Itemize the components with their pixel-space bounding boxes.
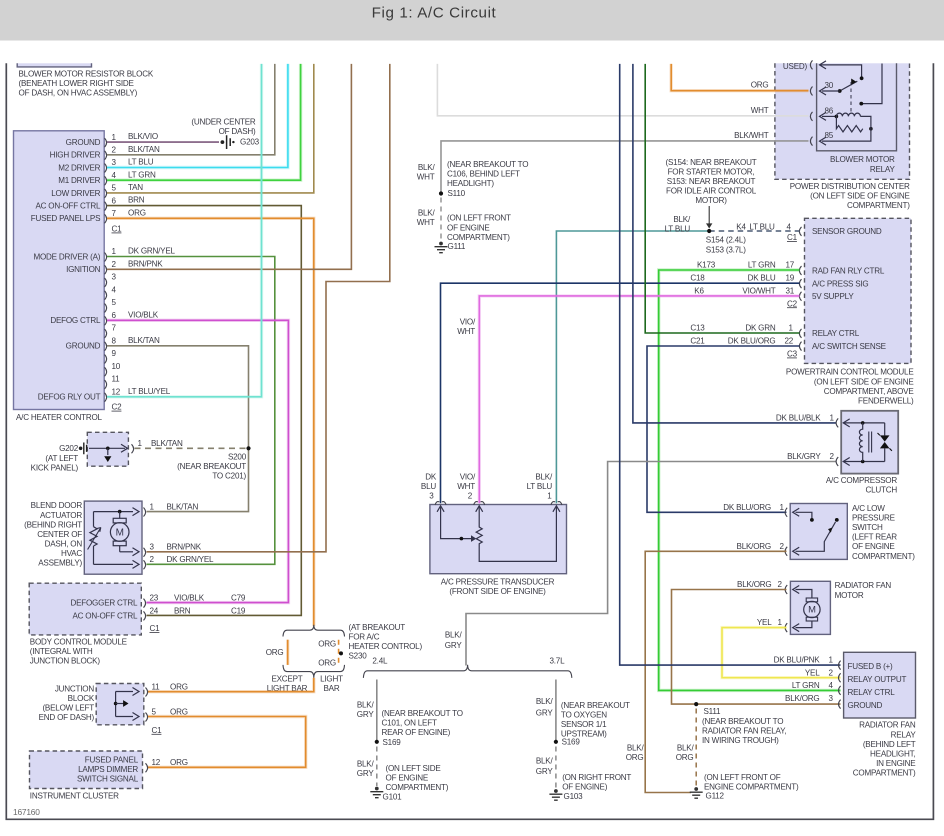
svg-text:JUNCTION BLOCK): JUNCTION BLOCK) xyxy=(30,657,101,666)
svg-text:(ON RIGHT FRONT: (ON RIGHT FRONT xyxy=(562,773,631,782)
svg-text:(ON LEFT SIDE OF ENGINE: (ON LEFT SIDE OF ENGINE xyxy=(810,191,910,200)
radiator fan relay box xyxy=(844,652,916,718)
svg-text:BLK/TAN: BLK/TAN xyxy=(167,502,199,511)
svg-text:S200: S200 xyxy=(228,452,247,461)
svg-text:LAMPS DIMMER: LAMPS DIMMER xyxy=(78,765,138,774)
svg-text:(AT LEFT: (AT LEFT xyxy=(45,454,78,463)
svg-text:C3: C3 xyxy=(787,350,798,359)
switch internal contacts xyxy=(796,512,812,518)
ground G203 xyxy=(221,140,225,144)
svg-text:(NEAR BREAKOUT: (NEAR BREAKOUT xyxy=(177,462,246,471)
blower motor resistor block (clipped box) xyxy=(17,63,91,67)
powertrain control module box xyxy=(805,218,912,363)
A/C heater control module box xyxy=(14,131,105,410)
connector arcs low pressure switch xyxy=(785,508,787,517)
svg-text:LT BLU: LT BLU xyxy=(128,158,154,167)
wire LT GRN heater pin 4 xyxy=(107,64,301,180)
svg-text:WHT: WHT xyxy=(417,218,435,227)
svg-text:VIO/: VIO/ xyxy=(460,318,476,327)
blower relay actuator dashed link xyxy=(850,82,852,113)
ground G111 xyxy=(439,242,443,246)
svg-text:G203: G203 xyxy=(240,138,260,147)
connector arcs junction block xyxy=(146,688,148,697)
wire dashed BLK/GRY S169 to G103 xyxy=(555,747,557,789)
svg-text:RADIATOR FAN: RADIATOR FAN xyxy=(835,581,892,590)
connector arc G202 pin 1 xyxy=(132,444,134,453)
svg-text:IGNITION: IGNITION xyxy=(66,265,101,274)
connector arcs clutch pins xyxy=(836,418,838,427)
svg-text:SWITCH: SWITCH xyxy=(852,523,883,532)
svg-text:GRY: GRY xyxy=(357,769,375,778)
ground G101 xyxy=(375,787,379,791)
wire ORG junction pin 5 to instrument cluster pin 12 xyxy=(148,717,306,768)
svg-text:OF ENGINE: OF ENGINE xyxy=(447,223,490,232)
svg-text:LT GRN: LT GRN xyxy=(128,170,156,179)
svg-text:4: 4 xyxy=(787,222,792,231)
svg-text:A/C PRESS SIG: A/C PRESS SIG xyxy=(812,279,869,288)
svg-text:RADIATOR FAN RELAY,: RADIATOR FAN RELAY, xyxy=(702,727,786,736)
svg-text:BRN: BRN xyxy=(128,196,145,205)
svg-text:167160: 167160 xyxy=(13,807,40,817)
A/C compressor clutch box xyxy=(841,411,898,474)
svg-text:BLK/TAN: BLK/TAN xyxy=(128,336,160,345)
svg-text:LT BLU: LT BLU xyxy=(749,222,775,231)
wire dashed K4 LT BLU S154 to PCM pin 4 xyxy=(709,230,799,232)
wire VIO/WHT K6 PCM pin 31 to transducer pin 2 xyxy=(479,296,799,503)
wire BLK/GRY 3.7L branch to S169 xyxy=(555,680,557,742)
svg-text:WHT: WHT xyxy=(457,327,475,336)
blower relay coil and resistor xyxy=(822,115,836,117)
wire DK BLU/BLK to clutch pin 1 xyxy=(633,64,837,423)
svg-text:BLK/ORG: BLK/ORG xyxy=(737,580,771,589)
svg-text:(NEAR BREAKOUT TO: (NEAR BREAKOUT TO xyxy=(702,717,783,726)
svg-text:GROUND: GROUND xyxy=(66,138,101,147)
svg-text:DK BLU/ORG: DK BLU/ORG xyxy=(723,503,771,512)
junction block internal feed xyxy=(116,692,133,717)
svg-text:M: M xyxy=(116,527,124,538)
svg-text:1: 1 xyxy=(789,324,794,333)
wire dashed BLK/ORG S111 to G112 xyxy=(695,709,697,787)
svg-text:ENGINE COMPARTMENT): ENGINE COMPARTMENT) xyxy=(704,783,799,792)
svg-text:ORG: ORG xyxy=(318,659,336,668)
svg-text:2: 2 xyxy=(112,146,117,155)
svg-text:C1: C1 xyxy=(150,624,161,633)
svg-text:C13: C13 xyxy=(690,324,705,333)
svg-text:TO C201): TO C201) xyxy=(212,472,246,481)
svg-text:BLK/GRY: BLK/GRY xyxy=(787,452,821,461)
svg-text:FUSED PANEL: FUSED PANEL xyxy=(85,756,139,765)
wire DK GRN C13 PCM pin 1 to top xyxy=(645,64,799,333)
S154 pointer arrow xyxy=(708,206,710,225)
svg-text:DEFOG CTRL: DEFOG CTRL xyxy=(50,316,101,325)
svg-text:G101: G101 xyxy=(383,792,403,801)
svg-text:7: 7 xyxy=(112,324,117,333)
wire ORG heater pin 7 to light-bar brace xyxy=(107,218,314,626)
svg-text:2: 2 xyxy=(778,580,783,589)
svg-text:BLK/: BLK/ xyxy=(535,473,553,482)
svg-text:4: 4 xyxy=(829,681,834,690)
svg-text:FUSED B (+): FUSED B (+) xyxy=(848,662,894,671)
svg-text:GRY: GRY xyxy=(536,708,554,717)
svg-text:ORG: ORG xyxy=(170,758,188,767)
svg-text:85: 85 xyxy=(825,131,834,140)
svg-text:1: 1 xyxy=(112,133,117,142)
svg-text:3: 3 xyxy=(112,273,117,282)
wire BRN/PNK heater C2 pin 2 ignition xyxy=(107,64,351,269)
svg-text:BLK/TAN: BLK/TAN xyxy=(151,439,183,448)
svg-text:1: 1 xyxy=(780,503,785,512)
svg-text:C79: C79 xyxy=(231,594,246,603)
svg-text:LT BLU/YEL: LT BLU/YEL xyxy=(128,387,171,396)
svg-text:5: 5 xyxy=(112,298,117,307)
svg-text:1: 1 xyxy=(150,503,155,512)
blower relay contact from PDC feed xyxy=(863,64,882,104)
svg-text:BLK/WHT: BLK/WHT xyxy=(734,131,769,140)
svg-text:BRN/PNK: BRN/PNK xyxy=(167,542,202,551)
svg-text:BLOWER MOTOR: BLOWER MOTOR xyxy=(830,155,895,164)
svg-text:DK BLU/BLK: DK BLU/BLK xyxy=(776,413,821,422)
blend door actuator box xyxy=(84,501,142,574)
power distribution center box xyxy=(775,63,910,179)
connector arcs fan relay xyxy=(839,661,841,670)
wire BLK/GRY 2.4L branch to S169 xyxy=(376,680,378,742)
svg-text:2: 2 xyxy=(830,452,835,461)
svg-text:BRN/PNK: BRN/PNK xyxy=(128,259,163,268)
svg-text:M: M xyxy=(808,604,816,615)
svg-text:S153: NEAR BREAKOUT: S153: NEAR BREAKOUT xyxy=(667,177,756,186)
svg-text:RELAY CTRL: RELAY CTRL xyxy=(812,329,860,338)
svg-text:ACTUATOR: ACTUATOR xyxy=(40,511,82,520)
svg-text:BLK/: BLK/ xyxy=(357,701,375,710)
svg-text:(BELOW LEFT: (BELOW LEFT xyxy=(42,704,94,713)
svg-text:2: 2 xyxy=(780,542,785,551)
title bar xyxy=(0,0,944,41)
svg-text:YEL: YEL xyxy=(757,618,772,627)
svg-text:IN ENGINE: IN ENGINE xyxy=(876,759,916,768)
svg-text:A/C LOW: A/C LOW xyxy=(852,504,885,513)
wire BLK/ORG fan motor pin 2 to fan relay pin 3 via S111 xyxy=(672,590,841,705)
splice S111 xyxy=(694,702,698,706)
svg-text:HEADLIGHT): HEADLIGHT) xyxy=(447,179,494,188)
svg-text:DEFOG RLY OUT: DEFOG RLY OUT xyxy=(38,393,101,402)
splice S110 xyxy=(439,191,443,195)
svg-text:FUSED PANEL LPS: FUSED PANEL LPS xyxy=(31,214,101,223)
svg-text:ORG: ORG xyxy=(170,683,188,692)
svg-text:HVAC: HVAC xyxy=(61,549,82,558)
svg-text:30: 30 xyxy=(825,81,834,90)
wire LT BLU/YEL heater C2 pin 12 xyxy=(107,64,262,397)
svg-text:K4: K4 xyxy=(736,222,746,231)
splice S169 3.7L xyxy=(554,740,558,744)
instrument cluster box xyxy=(30,751,143,789)
wire DK BLU C18 PCM pin 19 to transducer pin 3 xyxy=(441,283,800,503)
svg-text:DASH, ON: DASH, ON xyxy=(45,539,83,548)
wire dashed BLK/TAN G202 to S200 xyxy=(135,447,249,449)
svg-text:BODY CONTROL MODULE: BODY CONTROL MODULE xyxy=(30,637,128,646)
wire BLK/TAN heater pin 2 xyxy=(107,64,275,155)
svg-text:ORG: ORG xyxy=(626,753,644,762)
svg-text:RADIATOR FAN: RADIATOR FAN xyxy=(859,721,916,730)
svg-text:GROUND: GROUND xyxy=(848,701,883,710)
svg-text:CENTER OF: CENTER OF xyxy=(37,530,82,539)
svg-text:TAN: TAN xyxy=(128,183,143,192)
blower motor relay box xyxy=(817,63,897,151)
svg-text:POWERTRAIN CONTROL MODULE: POWERTRAIN CONTROL MODULE xyxy=(786,368,914,377)
svg-text:HIGH DRIVER: HIGH DRIVER xyxy=(50,151,101,160)
svg-text:3.7L: 3.7L xyxy=(550,656,566,665)
A/C pressure transducer box xyxy=(430,505,567,574)
svg-text:S110: S110 xyxy=(448,189,466,198)
svg-text:COMPARTMENT): COMPARTMENT) xyxy=(847,201,910,210)
splice S200 xyxy=(246,446,250,450)
wire DK BLU/ORG C21 PCM pin 22 to low pressure switch pin 1 xyxy=(647,346,800,512)
svg-text:(LEFT REAR: (LEFT REAR xyxy=(852,533,897,542)
svg-text:(BEHIND RIGHT: (BEHIND RIGHT xyxy=(24,520,82,529)
svg-text:M1 DRIVER: M1 DRIVER xyxy=(58,176,100,185)
svg-text:C1: C1 xyxy=(787,233,798,242)
svg-text:BLK/: BLK/ xyxy=(536,697,554,706)
wire BRN heater pin 6 to BCM pin 24 xyxy=(107,206,301,616)
svg-text:VIO/BLK: VIO/BLK xyxy=(128,310,159,319)
svg-text:BLK/ORG: BLK/ORG xyxy=(785,694,819,703)
svg-text:3: 3 xyxy=(829,694,834,703)
svg-text:S230: S230 xyxy=(349,652,368,661)
svg-text:YEL: YEL xyxy=(805,668,820,677)
svg-text:C1: C1 xyxy=(112,225,123,234)
svg-text:DK BLU/PNK: DK BLU/PNK xyxy=(774,656,821,665)
svg-text:INSTRUMENT CLUSTER: INSTRUMENT CLUSTER xyxy=(30,792,119,801)
svg-text:C21: C21 xyxy=(690,337,705,346)
svg-text:C19: C19 xyxy=(231,606,246,615)
svg-text:S111: S111 xyxy=(704,707,722,716)
body control module box xyxy=(29,583,141,635)
svg-text:1: 1 xyxy=(778,618,783,627)
svg-text:BLK/VIO: BLK/VIO xyxy=(128,132,158,141)
wire VIO/BLK heater C2 pin 6 to BCM pin 23 xyxy=(107,320,288,602)
svg-text:DEFOGGER CTRL: DEFOGGER CTRL xyxy=(70,599,138,608)
svg-text:PRESSURE: PRESSURE xyxy=(852,514,896,523)
svg-text:VIO/: VIO/ xyxy=(460,472,476,481)
svg-text:(BENEATH LOWER RIGHT SIDE: (BENEATH LOWER RIGHT SIDE xyxy=(19,79,135,88)
wire LT GRN K173 PCM pin 17 to radiator fan relay pin 4 xyxy=(659,270,841,690)
svg-text:EXCEPT: EXCEPT xyxy=(271,675,302,684)
svg-text:(ON LEFT SIDE OF ENGINE: (ON LEFT SIDE OF ENGINE xyxy=(814,377,914,386)
svg-text:GROUND: GROUND xyxy=(66,342,101,351)
svg-text:G112: G112 xyxy=(706,792,725,801)
svg-text:BLK/: BLK/ xyxy=(357,759,375,768)
svg-text:WHT: WHT xyxy=(751,106,769,115)
svg-text:S169: S169 xyxy=(562,738,581,747)
svg-text:G202: G202 xyxy=(59,444,79,453)
svg-text:4: 4 xyxy=(112,286,117,295)
svg-text:C2: C2 xyxy=(112,403,123,412)
blend door internal circuit with motor xyxy=(94,511,134,513)
svg-text:SENSOR GROUND: SENSOR GROUND xyxy=(812,227,882,236)
svg-text:1: 1 xyxy=(138,439,143,448)
svg-text:JUNCTION: JUNCTION xyxy=(55,684,95,693)
svg-text:(FRONT SIDE OF ENGINE): (FRONT SIDE OF ENGINE) xyxy=(449,587,546,596)
svg-text:S154 (2.4L): S154 (2.4L) xyxy=(706,236,746,245)
svg-text:DK GRN/YEL: DK GRN/YEL xyxy=(167,555,215,564)
svg-text:OF ENGINE: OF ENGINE xyxy=(852,542,895,551)
svg-text:S169: S169 xyxy=(383,738,402,747)
svg-text:ASSEMBLY): ASSEMBLY) xyxy=(38,559,82,568)
svg-text:VIO/WHT: VIO/WHT xyxy=(742,287,775,296)
svg-text:K6: K6 xyxy=(694,287,704,296)
svg-text:5: 5 xyxy=(112,184,117,193)
svg-text:WHT: WHT xyxy=(457,482,475,491)
blower relay internal switch xyxy=(820,65,862,78)
brace breakout lower (variants merge) xyxy=(283,665,345,678)
wire ORG to blower relay pin 30 xyxy=(671,64,808,91)
splice S230 xyxy=(339,651,343,655)
svg-text:ORG: ORG xyxy=(676,753,694,762)
svg-text:2.4L: 2.4L xyxy=(372,656,388,665)
clutch internal coil and diode xyxy=(844,423,885,462)
svg-text:OF ENGINE: OF ENGINE xyxy=(386,774,429,783)
svg-text:RELAY CTRL: RELAY CTRL xyxy=(848,688,896,697)
svg-text:(UNDER CENTER: (UNDER CENTER xyxy=(191,118,256,127)
svg-text:(ON LEFT SIDE: (ON LEFT SIDE xyxy=(386,764,442,773)
svg-text:1: 1 xyxy=(112,247,117,256)
svg-text:SWITCH SIGNAL: SWITCH SIGNAL xyxy=(77,775,139,784)
wire TAN heater pin 5 xyxy=(107,64,314,193)
wire DK BLU/PNK fan relay pin 1 xyxy=(620,64,841,665)
wire dashed BLK/WHT S110 to G111 xyxy=(440,198,442,242)
svg-text:RELAY: RELAY xyxy=(870,165,896,174)
svg-text:DK GRN: DK GRN xyxy=(745,324,776,333)
svg-text:FENDERWELL): FENDERWELL) xyxy=(858,396,914,405)
svg-text:17: 17 xyxy=(786,260,795,269)
svg-text:12: 12 xyxy=(152,758,161,767)
wire YEL fan motor pin 1 to fan relay pin 2 xyxy=(722,628,841,678)
svg-text:86: 86 xyxy=(825,107,834,116)
svg-text:C18: C18 xyxy=(690,274,705,283)
splice S169 2.4L xyxy=(375,740,379,744)
svg-text:DK GRN/YEL: DK GRN/YEL xyxy=(128,247,176,256)
svg-text:3: 3 xyxy=(429,492,434,501)
svg-text:DK BLU: DK BLU xyxy=(748,274,776,283)
fan motor internal symbol xyxy=(796,590,812,599)
svg-text:BLK/TAN: BLK/TAN xyxy=(128,145,160,154)
svg-text:BLK/: BLK/ xyxy=(677,743,695,752)
ground G112 xyxy=(694,787,698,791)
splice S154 xyxy=(707,229,711,233)
wire ORG light-bar branch dashed xyxy=(338,640,340,665)
svg-text:LT BLU: LT BLU xyxy=(527,482,553,491)
svg-text:OF DASH, ON HVAC ASSEMBLY): OF DASH, ON HVAC ASSEMBLY) xyxy=(19,89,138,98)
svg-text:POWER DISTRIBUTION CENTER: POWER DISTRIBUTION CENTER xyxy=(790,182,910,191)
svg-text:LT GRN: LT GRN xyxy=(792,681,820,690)
svg-text:HEADLIGHT,: HEADLIGHT, xyxy=(870,749,915,758)
svg-text:BLK/: BLK/ xyxy=(445,631,463,640)
svg-text:5V SUPPLY: 5V SUPPLY xyxy=(812,292,854,301)
svg-text:(AT BREAKOUT: (AT BREAKOUT xyxy=(349,623,406,632)
wire BLK/VIO heater pin 1 to G203 xyxy=(107,141,219,143)
wire BLK/LT BLU transducer pin 1 to S154 xyxy=(556,231,709,503)
svg-text:1: 1 xyxy=(830,413,835,422)
svg-text:G111: G111 xyxy=(448,242,466,251)
connector arcs BCM xyxy=(144,599,146,608)
svg-text:C2: C2 xyxy=(787,299,798,308)
svg-text:2: 2 xyxy=(150,555,155,564)
svg-text:A/C SWITCH SENSE: A/C SWITCH SENSE xyxy=(812,342,887,351)
wire BLK/WHT blower relay pin 85 to S110 xyxy=(441,141,809,194)
svg-text:BLK/: BLK/ xyxy=(418,163,436,172)
svg-text:8: 8 xyxy=(112,337,117,346)
svg-text:22: 22 xyxy=(785,337,794,346)
svg-text:2: 2 xyxy=(468,492,473,501)
svg-text:23: 23 xyxy=(150,594,159,603)
svg-text:10: 10 xyxy=(112,362,121,371)
svg-text:BLK/: BLK/ xyxy=(536,756,554,765)
svg-text:M2 DRIVER: M2 DRIVER xyxy=(58,163,100,172)
svg-text:RAD FAN RLY CTRL: RAD FAN RLY CTRL xyxy=(812,267,885,276)
wire BLK/GRY clutch pin 2 ground path xyxy=(466,462,837,666)
svg-text:11: 11 xyxy=(152,683,161,692)
connector arcs blower relay pins xyxy=(810,60,812,69)
connector arcs and pin numbers C1 on A/C heater control xyxy=(105,138,107,147)
svg-text:FOR STARTER MOTOR,: FOR STARTER MOTOR, xyxy=(668,167,755,176)
svg-text:(ON LEFT FRONT OF: (ON LEFT FRONT OF xyxy=(704,773,781,782)
connector arcs PCM xyxy=(799,227,801,236)
junction block box xyxy=(96,684,144,725)
svg-text:MOTOR): MOTOR) xyxy=(695,196,727,205)
wire LT BLU heater pin 3 xyxy=(107,64,288,168)
svg-text:RELAY OUTPUT: RELAY OUTPUT xyxy=(848,675,907,684)
svg-text:USED): USED) xyxy=(783,62,808,71)
svg-text:SENSOR 1/1: SENSOR 1/1 xyxy=(561,720,607,729)
brace engine variant split 2.4L 3.7L xyxy=(363,665,571,678)
connector arcs transducer pins xyxy=(435,502,446,505)
ground G202 box at left kick panel xyxy=(87,432,128,466)
svg-text:BRN: BRN xyxy=(174,606,191,615)
svg-text:C1: C1 xyxy=(152,726,163,735)
svg-text:(INTEGRAL WITH: (INTEGRAL WITH xyxy=(30,647,93,656)
wire dashed BLK/GRY S169 to G101 xyxy=(376,747,378,787)
wire BRN/PNK blend door pin 3 to top xyxy=(147,64,390,552)
svg-text:KICK PANEL): KICK PANEL) xyxy=(31,464,79,473)
svg-text:K173: K173 xyxy=(697,260,716,269)
svg-text:COMPARTMENT): COMPARTMENT) xyxy=(447,233,510,242)
svg-text:GRY: GRY xyxy=(445,641,463,650)
svg-text:6: 6 xyxy=(112,196,117,205)
svg-text:LIGHT: LIGHT xyxy=(320,675,343,684)
brace breakout upper (light bar variants) xyxy=(283,625,345,637)
svg-text:BLK/: BLK/ xyxy=(673,215,691,224)
svg-text:HEATER CONTROL): HEATER CONTROL) xyxy=(349,642,423,651)
svg-text:FOR A/C: FOR A/C xyxy=(349,633,380,642)
svg-text:G103: G103 xyxy=(564,792,584,801)
svg-text:VIO/BLK: VIO/BLK xyxy=(174,594,205,603)
wire BLK/ORG switch pin 2 to G112 xyxy=(645,551,786,792)
svg-text:COMPARTMENT): COMPARTMENT) xyxy=(853,769,916,778)
svg-text:MOTOR: MOTOR xyxy=(835,591,864,600)
svg-text:GRY: GRY xyxy=(357,710,375,719)
svg-text:COMPARTMENT, ABOVE: COMPARTMENT, ABOVE xyxy=(824,387,915,396)
svg-text:TO OXYGEN: TO OXYGEN xyxy=(561,710,607,719)
svg-text:C101, ON LEFT: C101, ON LEFT xyxy=(382,719,437,728)
svg-text:DK: DK xyxy=(425,472,437,481)
svg-text:1: 1 xyxy=(547,492,552,501)
svg-text:19: 19 xyxy=(786,274,795,283)
svg-text:RELAY: RELAY xyxy=(891,730,917,739)
svg-text:BLK/: BLK/ xyxy=(627,743,645,752)
transducer internal potentiometer xyxy=(441,507,471,539)
svg-text:Fig 1: A/C Circuit: Fig 1: A/C Circuit xyxy=(372,5,497,22)
connector arcs fan motor xyxy=(785,585,787,594)
svg-text:BLK/ORG: BLK/ORG xyxy=(737,542,771,551)
